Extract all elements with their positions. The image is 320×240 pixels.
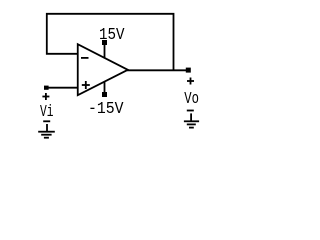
node: input terminal Vi (square junction) xyxy=(44,86,49,90)
ground (input side) xyxy=(38,124,55,139)
wire: op-amp output to node Vo xyxy=(127,69,188,71)
ground (output side) xyxy=(184,113,199,128)
wire: feedback loop from inverting input up over to output node xyxy=(47,14,174,71)
pin: positive supply terminal (square) xyxy=(102,40,107,45)
op-amp inverting input marker (-) xyxy=(81,57,89,59)
pin: negative supply terminal (square) xyxy=(102,92,107,97)
svg-text:15V: 15V xyxy=(99,26,125,45)
label: Vo polarity minus xyxy=(187,110,194,112)
wire: negative supply stem xyxy=(104,82,106,94)
label: Vi polarity plus xyxy=(42,93,49,100)
op-amp U1 xyxy=(78,44,128,95)
wire: positive supply stem xyxy=(104,44,106,59)
wire: input terminal to non-inverting input xyxy=(46,87,78,89)
label: Vo polarity plus xyxy=(187,78,194,85)
node: output terminal Vo (square junction) xyxy=(186,68,191,73)
label: Vi polarity minus xyxy=(43,120,50,122)
op-amp non-inverting input marker (+) xyxy=(82,81,90,89)
svg-text:Vo: Vo xyxy=(184,90,199,109)
svg-text:Vi: Vi xyxy=(40,103,54,122)
svg-text:-15V: -15V xyxy=(88,100,124,119)
